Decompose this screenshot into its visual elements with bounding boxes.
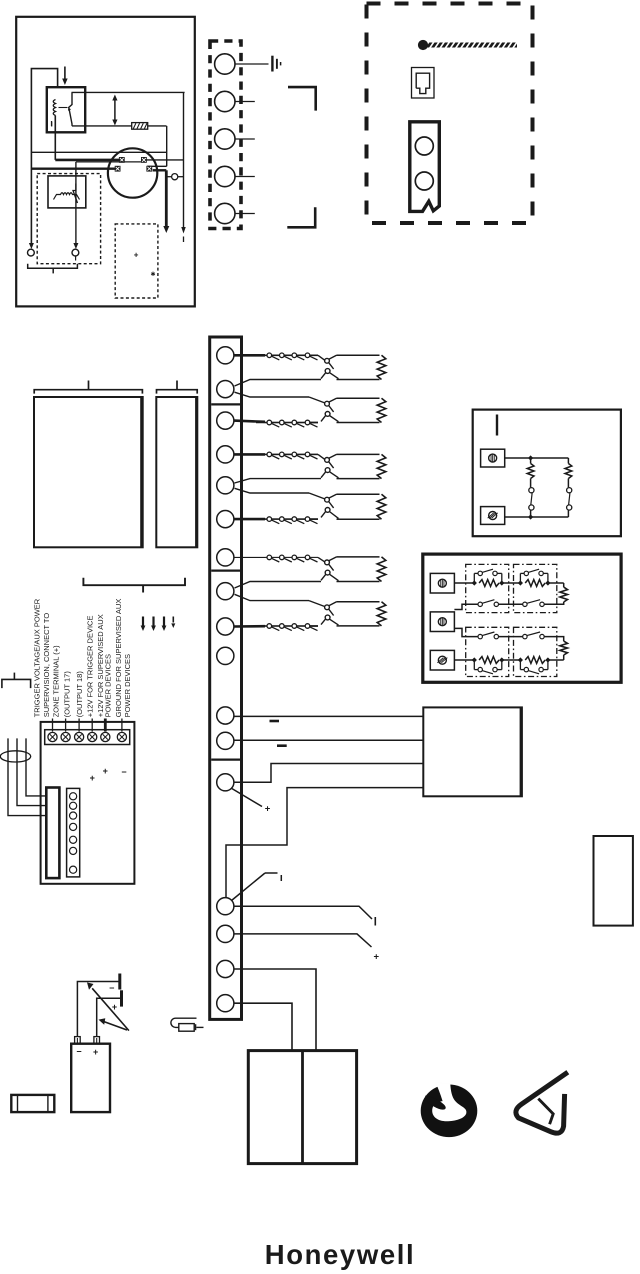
svg-text:+: + [265, 804, 271, 815]
svg-text:+: + [103, 766, 108, 776]
svg-text:Honeywell: Honeywell [265, 1239, 415, 1270]
svg-text:−: − [121, 767, 126, 777]
svg-text:+: + [134, 250, 139, 259]
svg-text:✱: ✱ [150, 271, 155, 278]
svg-text:(OUTPUT 18): (OUTPUT 18) [75, 671, 84, 718]
svg-text:GROUND FOR SUPERVISED AUX: GROUND FOR SUPERVISED AUX [114, 599, 123, 718]
svg-text:+12V FOR TRIGGER DEVICE: +12V FOR TRIGGER DEVICE [85, 616, 94, 718]
svg-text:−: − [76, 1047, 81, 1057]
svg-text:ZONE TERMINAL (+): ZONE TERMINAL (+) [52, 645, 61, 717]
svg-text:+: + [374, 952, 380, 963]
svg-text:(OUTPUT 17): (OUTPUT 17) [62, 671, 71, 718]
svg-text:+: + [93, 1047, 98, 1057]
svg-text:+: + [112, 1002, 117, 1012]
svg-text:POWER DEVICES: POWER DEVICES [104, 654, 113, 717]
svg-text:+: + [90, 773, 95, 783]
svg-text:SUPERVISION, CONNECT TO: SUPERVISION, CONNECT TO [42, 613, 51, 718]
svg-text:−: − [109, 983, 114, 993]
svg-text:POWER DEVICES: POWER DEVICES [123, 654, 132, 717]
svg-text:TRIGGER VOLTAGE/AUX POWER: TRIGGER VOLTAGE/AUX POWER [33, 598, 42, 717]
